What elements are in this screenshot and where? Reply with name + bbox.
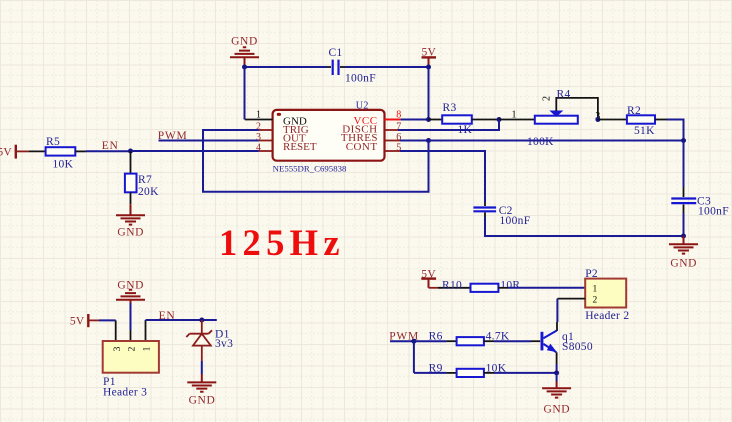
- wire pin stub C1 left: [327, 66, 331, 68]
- svg-text:2: 2: [541, 96, 552, 101]
- wire R9 to emitter node: [494, 372, 557, 374]
- svg-text:Header 3: Header 3: [103, 387, 147, 399]
- wire VCC node to R3: [429, 119, 443, 121]
- wire D1 bottom: [201, 346, 203, 361]
- svg-text:GND: GND: [543, 404, 570, 416]
- svg-text:20K: 20K: [138, 186, 159, 198]
- wire node to R2: [598, 119, 627, 121]
- svg-text:R7: R7: [138, 174, 152, 186]
- resistor R5: [46, 136, 76, 170]
- wire pin stub base: [531, 340, 540, 342]
- wire pin stub C1 right: [340, 66, 345, 68]
- svg-text:S8050: S8050: [562, 341, 593, 353]
- svg-text:1: 1: [143, 346, 153, 351]
- svg-text:5V: 5V: [0, 147, 12, 159]
- wire TRIG loop: [203, 130, 429, 192]
- node junction emitter: [554, 370, 559, 375]
- ground GND under C3: [669, 236, 698, 270]
- node junction 5V-C1: [426, 65, 431, 70]
- wire pin stub C2 bottom: [484, 213, 486, 218]
- wire R7 top: [130, 151, 132, 174]
- connector P2: [585, 268, 629, 322]
- wire C3 down: [683, 213, 685, 236]
- node junction pot3-R2: [595, 117, 600, 122]
- node junction VCC: [426, 117, 431, 122]
- svg-text:R9: R9: [429, 363, 443, 375]
- wire R10 to P2 pin1: [508, 287, 585, 289]
- svg-text:GND: GND: [189, 394, 216, 406]
- wire collector riser: [556, 299, 558, 322]
- wire pin stub collector: [556, 322, 558, 331]
- wire R2 to THRES rail: [667, 120, 684, 141]
- svg-text:R3: R3: [443, 102, 457, 114]
- connector P1: [103, 341, 159, 399]
- svg-text:R2: R2: [627, 105, 641, 117]
- wire pin stub C3 top: [683, 187, 685, 197]
- svg-text:5V: 5V: [421, 269, 436, 281]
- svg-text:NE555DR_C695838: NE555DR_C695838: [273, 164, 347, 174]
- wire pin stub R9 left: [447, 372, 457, 374]
- wire emitter down: [556, 364, 558, 373]
- svg-text:R4: R4: [557, 89, 571, 101]
- wire 5V to P1 pin3: [99, 319, 116, 321]
- ground GND under R7: [116, 204, 145, 238]
- svg-text:1: 1: [512, 110, 517, 121]
- U2 pin 2 stub: [259, 129, 273, 131]
- wire pin stub emitter: [556, 352, 558, 364]
- wire pin7 blue part stub: [398, 129, 400, 131]
- node junction EN-D1: [199, 318, 204, 323]
- svg-text:GND: GND: [231, 36, 258, 48]
- svg-text:R5: R5: [46, 136, 60, 148]
- wire PWM down: [413, 341, 415, 373]
- wire 5V stub: [89, 319, 100, 321]
- svg-text:Header 2: Header 2: [585, 310, 629, 322]
- ground GND top: [230, 36, 259, 67]
- svg-text:3: 3: [113, 346, 123, 351]
- power 5V bottom right: [421, 269, 436, 288]
- U2 pin 4 stub: [259, 150, 273, 152]
- wire pin stub R6 right: [484, 340, 494, 342]
- svg-text:U2: U2: [356, 100, 369, 111]
- node junction rail-R2-C3: [681, 138, 686, 143]
- power 5V bottom left: [70, 314, 88, 327]
- svg-text:GND: GND: [670, 258, 697, 270]
- svg-text:100nF: 100nF: [698, 205, 729, 217]
- svg-text:10R: 10R: [500, 279, 520, 291]
- U2 pin 1 stub: [245, 119, 273, 121]
- U2 pin 7 stub: [385, 129, 401, 131]
- wire pin stub R5 left: [29, 150, 46, 152]
- wire PWM to R9: [414, 372, 447, 374]
- ground GND above P1: [116, 280, 145, 303]
- svg-text:3v3: 3v3: [215, 338, 233, 350]
- wire pin stub R5 right: [75, 150, 86, 152]
- wire PWM to R6: [414, 340, 447, 342]
- svg-text:C1: C1: [329, 47, 343, 59]
- svg-text:51K: 51K: [634, 125, 655, 137]
- wire P1 pin 2: [130, 330, 132, 341]
- transistor q1 S8050: [541, 331, 593, 354]
- svg-text:5V: 5V: [421, 46, 436, 58]
- wire GND down to pin1: [244, 67, 246, 120]
- svg-text:10K: 10K: [53, 158, 74, 170]
- wire D1 top: [201, 320, 203, 334]
- resistor R2: [627, 105, 655, 137]
- wire THRES long rail: [429, 140, 684, 142]
- svg-text:RESET: RESET: [283, 141, 317, 153]
- ground GND under q1: [542, 382, 571, 416]
- resistor R9: [429, 363, 507, 377]
- U2 pin 5 stub: [385, 150, 401, 152]
- wire C1-to-5V: [345, 66, 429, 68]
- svg-text:P2: P2: [585, 268, 598, 280]
- wire P1 pin 1: [145, 320, 147, 341]
- wire 5V to R5: [16, 150, 29, 152]
- svg-text:R10: R10: [442, 279, 462, 291]
- svg-text:EN: EN: [102, 140, 119, 152]
- svg-text:2: 2: [593, 295, 598, 305]
- svg-text:8: 8: [396, 110, 401, 121]
- wire pin stub R6 left: [447, 340, 457, 342]
- wire D1 to GND: [201, 361, 203, 374]
- wire emitter node down: [556, 373, 558, 382]
- svg-text:1: 1: [256, 110, 261, 121]
- wire OUT to PWM stub: [159, 140, 259, 142]
- U2 pin 6 stub: [385, 140, 401, 142]
- wire P2 pin2 stub: [557, 298, 585, 300]
- wire R3 right: [472, 119, 499, 121]
- wire P1 pin 3: [115, 320, 117, 341]
- wire R5 to EN node: [86, 150, 131, 152]
- wire DISCH to node: [400, 120, 499, 130]
- svg-text:R6: R6: [429, 331, 443, 343]
- wire node to pot pin1: [499, 119, 535, 121]
- wire pin stub R10 right: [498, 287, 508, 289]
- power 5V far left: [0, 145, 16, 159]
- node junction bottom rail: [681, 234, 686, 239]
- ground GND under D1: [187, 374, 216, 406]
- node junction PWM: [411, 339, 416, 344]
- capacitor C1: [329, 47, 376, 85]
- wire pin8 to 5V node: [401, 119, 429, 121]
- wire PWM stub: [390, 340, 414, 342]
- wire EN run: [146, 319, 217, 321]
- U2 pin 8 stub: [385, 119, 401, 121]
- svg-text:2: 2: [128, 346, 138, 351]
- node junction EN: [128, 149, 133, 154]
- wire THRES left: [400, 140, 429, 142]
- wire CONT to C2: [400, 151, 485, 202]
- wire GND to P1 pin2: [130, 303, 132, 330]
- wire GND-to-C1: [245, 66, 328, 68]
- wire C3 top: [683, 141, 685, 188]
- capacitor C2: [473, 205, 530, 227]
- resistor R6: [429, 331, 510, 346]
- resistor R7: [125, 174, 159, 198]
- node junction R3-DISCH: [497, 117, 502, 122]
- node junction GND-C1: [242, 65, 247, 70]
- wire R6 to base: [494, 340, 531, 342]
- svg-text:EN: EN: [159, 310, 176, 322]
- svg-text:5V: 5V: [70, 315, 85, 327]
- wire 5V down to VCC node: [428, 67, 430, 120]
- wire 5V stub right: [429, 287, 439, 289]
- resistor R3: [442, 102, 472, 136]
- svg-text:100nF: 100nF: [500, 215, 531, 227]
- svg-text:100nF: 100nF: [345, 72, 376, 84]
- wire C2 down to bottom rail: [485, 217, 684, 236]
- svg-text:125Hz: 125Hz: [219, 222, 345, 263]
- power 5V top: [421, 46, 436, 67]
- wire pin stub R9 right: [484, 372, 494, 374]
- svg-text:100K: 100K: [527, 136, 554, 148]
- U2 pin 3 stub: [259, 140, 273, 142]
- svg-text:CONT: CONT: [346, 141, 378, 153]
- potentiometer R4: [535, 89, 601, 124]
- node junction THRES: [426, 138, 431, 143]
- wire pin stub C2 top: [484, 202, 486, 206]
- wire pin stub C3 bottom: [683, 205, 685, 214]
- capacitor C3: [671, 195, 729, 217]
- wire to R10: [438, 287, 471, 289]
- resistor R10: [442, 279, 520, 292]
- svg-text:GND: GND: [117, 226, 144, 238]
- diode D1 zener: [186, 328, 233, 350]
- wire R2 right: [655, 119, 667, 121]
- op-amp U2 NE555 body: [273, 100, 385, 173]
- wire EN to RESET: [131, 150, 259, 152]
- wire R7 bottom: [130, 192, 132, 204]
- svg-text:1: 1: [593, 284, 598, 294]
